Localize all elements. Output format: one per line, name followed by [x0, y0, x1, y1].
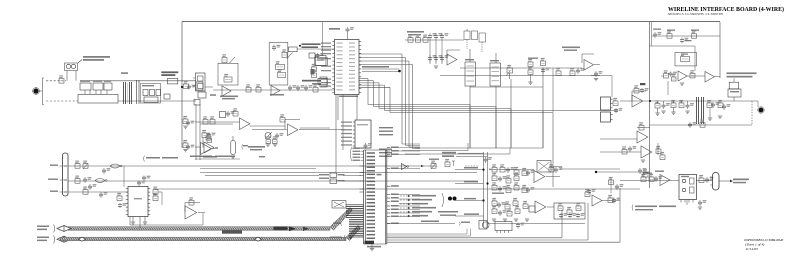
svg-text:11/14/03: 11/14/03: [745, 247, 758, 251]
svg-text:WIRELINE INTERFACE BOARD (4-WI: WIRELINE INTERFACE BOARD (4-WIRE): [668, 6, 784, 13]
svg-text:MODELS CL3600WB, CL3600TB: MODELS CL3600WB, CL3600TB: [668, 13, 723, 16]
